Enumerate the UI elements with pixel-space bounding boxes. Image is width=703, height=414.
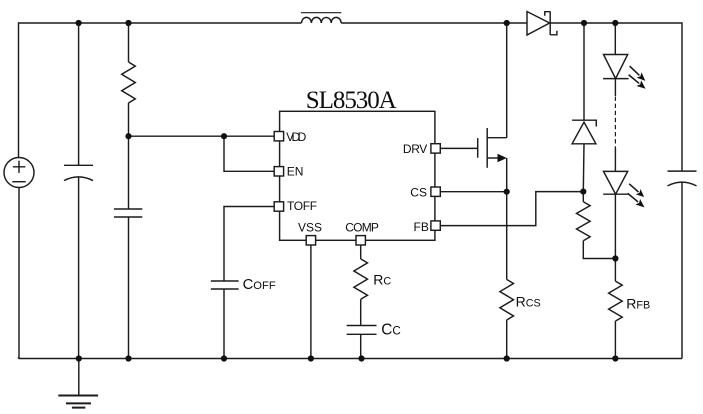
svg-text:CS: CS bbox=[410, 185, 427, 199]
inductor L1 bbox=[302, 17, 342, 23]
voltage source V1 bbox=[4, 158, 34, 188]
pin TOFF square bbox=[274, 202, 283, 211]
wire C2 bottom bbox=[128, 217, 130, 359]
wire EN bbox=[224, 136, 275, 171]
wire COMP bbox=[360, 245, 362, 259]
wire TOFF bbox=[224, 207, 275, 282]
node VDD branch bbox=[125, 133, 131, 139]
wire D2 branch top bbox=[583, 23, 585, 120]
node top rail R1 bbox=[125, 20, 131, 26]
wire LED2 to RFB node bbox=[614, 194, 616, 281]
svg-text:VDD: VDD bbox=[286, 130, 307, 144]
pin CS square bbox=[431, 187, 440, 196]
svg-text:FB: FB bbox=[414, 220, 429, 234]
node bottom RFB bbox=[612, 355, 618, 361]
wire CC bottom bbox=[360, 334, 362, 358]
svg-text:DRV: DRV bbox=[403, 142, 427, 156]
ground bbox=[58, 359, 98, 408]
pin VDD square bbox=[274, 132, 283, 141]
op-amp-ic U1 SL8530A box bbox=[280, 111, 435, 240]
wire COFF bottom bbox=[223, 289, 225, 359]
wire dashed to LED2 bbox=[614, 148, 616, 171]
node bottom RCS bbox=[504, 355, 510, 361]
svg-text:RCS: RCS bbox=[516, 294, 541, 310]
wire right rail bottom bbox=[681, 182, 683, 359]
diode D1 (Schottky) bbox=[527, 12, 557, 36]
node FB D2 bbox=[580, 189, 586, 195]
node bottom CC bbox=[358, 355, 364, 361]
wire VDD bbox=[129, 135, 275, 137]
wire dashed LED string bbox=[614, 97, 616, 149]
resistor RCS bbox=[500, 279, 514, 320]
svg-text:RFB: RFB bbox=[626, 295, 650, 311]
transistor Q1 NMOS bbox=[478, 128, 507, 168]
node bottom ground bbox=[76, 355, 82, 361]
svg-text:EN: EN bbox=[287, 165, 304, 179]
wire input cap branch bottom bbox=[78, 177, 80, 359]
wire R2 elbow to LED rail bbox=[583, 241, 615, 259]
wire left rail below source bbox=[18, 188, 20, 359]
wire top rail left segment bbox=[19, 23, 302, 158]
node top rail C1 bbox=[76, 20, 82, 26]
pin DRV square bbox=[431, 144, 440, 153]
node top rail LED bbox=[612, 20, 618, 26]
wire LED1 to dashed bbox=[614, 79, 616, 96]
capacitor C1 (input) bbox=[64, 165, 93, 180]
svg-text:SL8530A: SL8530A bbox=[306, 87, 397, 114]
node top rail drain bbox=[504, 20, 510, 26]
node bottom COFF bbox=[221, 355, 227, 361]
resistor RC bbox=[354, 259, 368, 299]
svg-text:COFF: COFF bbox=[243, 277, 276, 293]
node EN branch bbox=[221, 133, 227, 139]
pin VSS square bbox=[306, 236, 315, 245]
capacitor C3 (output) bbox=[668, 171, 697, 186]
pin EN square bbox=[274, 167, 283, 176]
wire LED branch top bbox=[614, 23, 616, 55]
wire FB node to resistor bbox=[582, 192, 584, 202]
LED D3 bbox=[603, 55, 648, 92]
svg-text:COMP: COMP bbox=[345, 220, 379, 234]
pin COMP square bbox=[356, 236, 365, 245]
resistor R1 bbox=[122, 62, 136, 103]
capacitor C2 bbox=[114, 209, 142, 217]
LED D4 bbox=[603, 171, 647, 210]
node top rail D2 bbox=[581, 20, 587, 26]
wire R1 branch top bbox=[128, 23, 130, 62]
resistor RFB bbox=[609, 281, 623, 321]
wire DRV to gate bbox=[440, 147, 477, 149]
svg-text:TOFF: TOFF bbox=[287, 199, 317, 213]
pin FB square bbox=[431, 221, 440, 230]
svg-text:RC: RC bbox=[373, 271, 391, 287]
wire RCS bottom bbox=[506, 320, 508, 359]
wire drain to top rail bbox=[506, 23, 508, 138]
wire FB bbox=[440, 192, 583, 226]
node R2 LED rail bbox=[612, 255, 618, 261]
wire VSS bbox=[310, 245, 312, 359]
wire RC to CC bbox=[360, 299, 362, 325]
wire R1 to VDD node bbox=[128, 103, 130, 209]
diode D2 bbox=[572, 120, 596, 144]
wire source down bbox=[506, 158, 508, 279]
wire RFB bottom bbox=[614, 321, 616, 358]
capacitor COFF bbox=[211, 281, 239, 289]
wire bottom rail bbox=[19, 357, 683, 359]
node CS source bbox=[504, 189, 510, 195]
wire top rail right segment bbox=[550, 23, 682, 171]
svg-text:VSS: VSS bbox=[298, 221, 322, 235]
svg-text:CC: CC bbox=[381, 322, 401, 339]
inductor core bar bbox=[301, 12, 341, 14]
capacitor CC bbox=[347, 326, 377, 335]
node bottom VSS bbox=[308, 355, 314, 361]
wire input cap branch top bbox=[78, 23, 80, 165]
wire top rail middle segment bbox=[341, 22, 527, 24]
wire CS bbox=[440, 191, 506, 193]
node bottom C2 bbox=[125, 355, 131, 361]
wire D2 to FB node bbox=[582, 144, 585, 192]
resistor R2 bbox=[577, 202, 591, 241]
